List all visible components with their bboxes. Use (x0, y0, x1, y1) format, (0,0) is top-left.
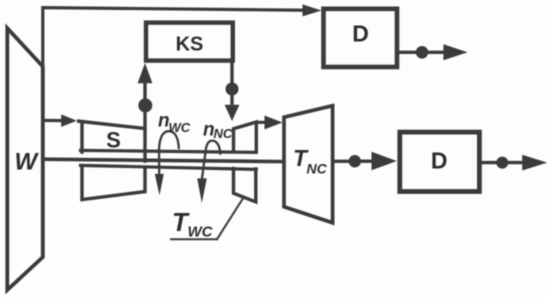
junction dot on drop (226, 83, 239, 96)
wire S to KS riser (143, 82, 146, 129)
arrowhead into TNC (265, 116, 283, 130)
wire loop nNC down (202, 154, 205, 179)
shaft line (H2) (43, 159, 284, 161)
arrowhead nWC down (155, 174, 164, 196)
turbine TWC upper half (234, 122, 257, 151)
arrowhead into D1 (303, 4, 322, 16)
inlet W parallelogram (7, 28, 43, 290)
casing line lower (H3) (81, 165, 257, 169)
svg-text:D: D (431, 148, 448, 174)
load box D1 (324, 9, 398, 67)
svg-text:S: S (106, 128, 121, 153)
arrowhead into TWC (225, 105, 240, 121)
wire KS to TWC drop (230, 61, 233, 104)
arrowhead nNC down (197, 178, 207, 203)
compressor S lower half (82, 167, 145, 200)
wire W to S arrow (43, 119, 62, 122)
arrowhead D2 output (522, 155, 547, 171)
svg-text:WC: WC (169, 120, 191, 135)
wire TWC leader line (217, 198, 244, 240)
svg-text:D: D (352, 21, 369, 47)
junction dot on D1 output (416, 46, 429, 59)
arrowhead into KS (138, 63, 153, 83)
svg-text:NC: NC (214, 126, 233, 141)
wire D1 output (400, 51, 446, 54)
load box D2 (400, 132, 480, 191)
junction dot TNC out (349, 155, 361, 167)
casing line upper (H1) (81, 150, 257, 152)
junction dot D2 output (496, 157, 508, 169)
wire TWC label underline (171, 238, 217, 240)
junction dot on riser (138, 98, 152, 112)
turbine TWC lower half (234, 169, 256, 202)
compressor S upper half (77, 121, 145, 161)
wire loop nWC down (158, 150, 160, 176)
rotation loop nNC (206, 141, 221, 154)
svg-text:WC: WC (188, 224, 214, 241)
arrowhead into D2 (372, 152, 397, 171)
svg-text:NC: NC (307, 161, 328, 177)
rotation loop nWC (159, 131, 179, 149)
wire TWC to TNC arrow (256, 121, 266, 124)
combustor KS box (146, 23, 233, 61)
wire D2 output (482, 161, 524, 164)
wire top line from W to D1 (43, 8, 304, 67)
wire TNC to D2 (334, 159, 372, 163)
arrowhead D1 output (443, 44, 467, 60)
free turbine TNC (284, 106, 333, 223)
svg-text:W: W (14, 149, 39, 176)
svg-text:KS: KS (176, 33, 204, 55)
arrowhead into S (61, 114, 77, 127)
